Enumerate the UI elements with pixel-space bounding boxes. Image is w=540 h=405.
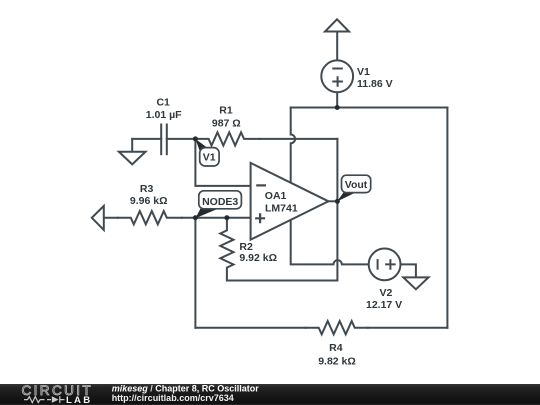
svg-text:R1: R1	[219, 105, 233, 117]
wire: bottom rail left segment	[195, 327, 305, 329]
node label V1 (flag box + pointer wedge)	[195, 139, 219, 166]
wire: V1 bottom stem to top rail	[336, 92, 338, 107]
op-amp OA1	[251, 163, 329, 240]
svg-text:V1: V1	[203, 152, 216, 164]
wire: NODE3 column down to bottom rail	[194, 218, 196, 328]
svg-text:LM741: LM741	[265, 203, 298, 215]
voltage source V1	[321, 60, 353, 92]
wire: output column from R1 row through output junction down to R2 bottom row	[227, 139, 338, 281]
svg-text:R3: R3	[140, 183, 154, 195]
svg-text:LAB: LAB	[66, 395, 92, 405]
resistor R4	[306, 321, 368, 334]
ground (left of C1)	[119, 152, 146, 165]
svg-text:1.01 µF: 1.01 µF	[146, 109, 182, 121]
resistor R2 vertical with leads	[220, 218, 233, 281]
junction op-amp output	[335, 199, 340, 204]
wire: op-amp output stub	[328, 200, 337, 202]
port arrow (left input terminal)	[92, 206, 104, 230]
svg-text:R4: R4	[329, 342, 343, 354]
wire: ground stem left of C1	[131, 139, 133, 152]
wire: C1 right plate to junction	[167, 138, 196, 140]
wire: ground corner to C1 left plate	[132, 138, 161, 140]
wire: bottom rail right segment	[368, 327, 448, 329]
svg-text:V1: V1	[357, 66, 370, 78]
svg-text:V2: V2	[379, 287, 392, 299]
svg-text:C1: C1	[156, 97, 170, 109]
node label Vout (flag box + pointer wedge)	[337, 175, 371, 201]
svg-text:11.86 V: 11.86 V	[357, 78, 393, 90]
capacitor C1 plates	[161, 124, 167, 156]
resistor R3	[118, 211, 182, 224]
ground (right of V2)	[403, 277, 428, 289]
power flag (VCC triangle)	[325, 19, 349, 31]
svg-text:987 Ω: 987 Ω	[212, 118, 241, 130]
svg-text:9.82 kΩ: 9.82 kΩ	[318, 355, 356, 367]
svg-text:12.17 V: 12.17 V	[366, 299, 402, 311]
CircuitLab logo doodle (resistor + diode)	[24, 396, 65, 403]
node label NODE3 (flag box + pointer wedge)	[195, 191, 241, 218]
wire: minus-input branch from C1/R1 junction down then right to op-amp	[195, 139, 250, 186]
wire: VCC flag stem to V1 top	[336, 32, 338, 61]
junction NODE3	[193, 215, 198, 220]
junction V1 source on top rail	[335, 105, 340, 110]
junction R2 top	[224, 215, 229, 220]
wire: right rail down to bottom rail	[446, 108, 448, 328]
svg-text:9.96 kΩ: 9.96 kΩ	[130, 195, 168, 207]
wire: top rail	[291, 107, 448, 109]
svg-text:Vout: Vout	[345, 179, 368, 191]
junction C1/R1/V1-label node	[193, 136, 198, 141]
resistor R1	[195, 132, 259, 145]
wire: R3 right terminal to NODE3 junction and op-amp plus input	[182, 217, 251, 219]
wire: V+ column from rail left end down, then right to V2 (hop over output column)	[291, 108, 369, 265]
svg-text:OA1: OA1	[265, 190, 287, 202]
footer bar	[0, 383, 540, 405]
svg-text:http://circuitlab.com/crv7634: http://circuitlab.com/crv7634	[112, 393, 234, 403]
wire: V2 right lead to ground	[400, 264, 416, 277]
voltage source V2	[369, 249, 401, 281]
svg-text:9.92 kΩ: 9.92 kΩ	[239, 252, 277, 264]
svg-text:NODE3: NODE3	[202, 196, 238, 208]
wire: port arrow to R3 left terminal	[104, 217, 118, 219]
wire: R1 right terminal to output column corner	[260, 138, 338, 140]
svg-text:mikeseg / Chapter 8, RC Oscill: mikeseg / Chapter 8, RC Oscillator	[112, 383, 260, 393]
